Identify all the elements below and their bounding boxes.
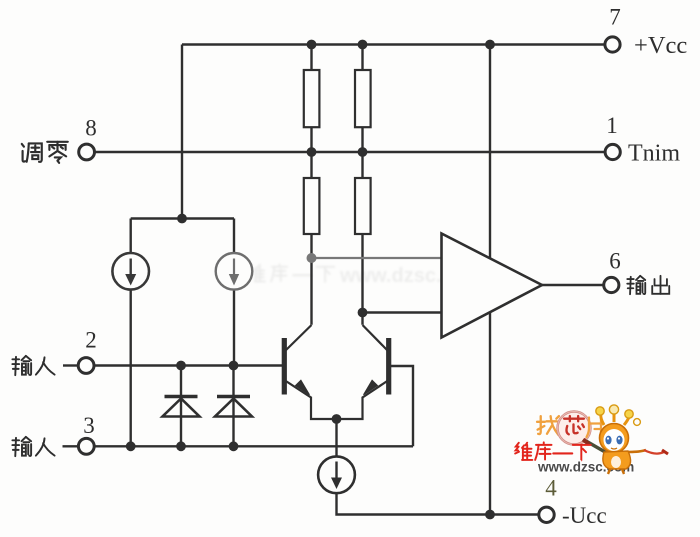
node pin8 row / right column xyxy=(358,147,368,157)
current source CS1 xyxy=(112,253,149,290)
node top rail / left column xyxy=(307,40,317,50)
wire diode D2 column xyxy=(232,366,234,447)
terminal pin 1 xyxy=(605,144,620,159)
wire CS2 bottom lead xyxy=(233,290,235,366)
logo 芯 red inside magnifier xyxy=(564,416,584,434)
wire CS1 bottom lead xyxy=(129,290,131,447)
face xyxy=(604,429,625,451)
antenna balls xyxy=(596,407,604,415)
wire diode D1 column xyxy=(180,366,182,447)
wire CS1 top lead xyxy=(129,219,131,254)
terminal pin 7 xyxy=(605,37,620,52)
terminal pin 8 xyxy=(79,144,95,160)
wire right resistor column xyxy=(361,45,363,325)
node pin3 row / D2 xyxy=(229,441,239,451)
resistor R4 xyxy=(355,178,371,234)
node top rail / right column xyxy=(358,40,368,50)
wire pin3 label dash xyxy=(63,445,80,447)
diode D2 xyxy=(215,397,252,417)
svg-text:6: 6 xyxy=(609,249,621,274)
svg-text:3: 3 xyxy=(83,413,95,438)
svg-text:1: 1 xyxy=(606,113,618,138)
diode D1 xyxy=(163,397,200,417)
terminal pin 3 xyxy=(78,438,94,454)
label 输出 xyxy=(627,276,669,294)
svg-text:7: 7 xyxy=(609,5,621,30)
logo text 找 (orange) xyxy=(537,412,601,445)
wire current-source top rail xyxy=(131,217,234,219)
wire op-amp lower input xyxy=(363,311,442,313)
antenna stalks xyxy=(601,414,604,425)
logo red text 维库一下 xyxy=(515,442,591,460)
node lower input xyxy=(358,308,368,318)
node pin2 row / D2 xyxy=(229,361,239,371)
current source CS2 (lighter) xyxy=(216,253,253,290)
svg-text:4: 4 xyxy=(545,476,557,501)
svg-text:8: 8 xyxy=(85,116,97,141)
transistor Q2 xyxy=(337,325,389,419)
wire left resistor column xyxy=(310,45,312,325)
op-amp U1 xyxy=(442,234,543,338)
wire +Vcc top rail xyxy=(182,43,605,45)
label 调零 xyxy=(22,142,68,163)
wire Q2 base to pin3 row xyxy=(390,366,413,446)
legs xyxy=(608,469,610,474)
resistor R3 xyxy=(304,178,320,234)
resistor R2 xyxy=(355,70,371,127)
logo magnifier circle xyxy=(558,412,591,445)
faint center watermark xyxy=(248,264,511,287)
wire pin3 row xyxy=(95,445,414,447)
wire emitter join to CS3 xyxy=(335,419,337,457)
wire pin8 row xyxy=(95,151,606,153)
logo pencil xyxy=(586,441,612,456)
terminal pin 2 xyxy=(78,358,94,374)
wire pin2 label dash xyxy=(63,364,79,366)
transistor Q1 xyxy=(284,325,336,419)
node pin8 row / left column xyxy=(307,147,317,157)
resistor R1 xyxy=(304,70,320,127)
node upper input (gray) xyxy=(307,253,317,263)
svg-text:2: 2 xyxy=(85,328,97,353)
label 输入 pin3 xyxy=(12,437,54,456)
head ring xyxy=(600,424,629,453)
body xyxy=(603,451,631,469)
terminal pin 4 xyxy=(539,507,554,522)
node pin2 row / D1 xyxy=(176,361,186,371)
node CS rail / wire A xyxy=(177,214,187,224)
mascot xyxy=(596,405,668,474)
wire pin2 row xyxy=(94,364,284,366)
mouth xyxy=(611,448,617,449)
terminal pin 6 xyxy=(604,277,619,292)
node pin3 row / D1 xyxy=(176,441,186,451)
wire CS3 bottom to -Ucc rail xyxy=(337,493,540,514)
svg-text:+Vcc: +Vcc xyxy=(634,32,687,59)
node emitters join xyxy=(332,414,342,424)
current source CS3 xyxy=(318,456,355,493)
arm + red whip xyxy=(628,450,646,452)
wire op-amp output xyxy=(542,284,604,286)
svg-text:Tnim: Tnim xyxy=(628,141,680,167)
label 输入 pin2 xyxy=(12,356,54,375)
svg-text:-Ucc: -Ucc xyxy=(562,503,607,528)
node -Ucc rail / wire B xyxy=(485,510,495,520)
watermark logo bottom-right xyxy=(515,405,668,475)
node top rail / wire B xyxy=(485,40,495,50)
wire vertical B through op-amp xyxy=(489,45,491,515)
node pin3 row / CS1 xyxy=(126,441,136,451)
wire op-amp upper input (gray) xyxy=(312,257,442,259)
wire CS2 top lead xyxy=(233,219,235,254)
wire A: top-left vertical xyxy=(181,45,183,219)
logo 片 (orange) xyxy=(587,418,602,438)
eyes xyxy=(605,436,611,445)
